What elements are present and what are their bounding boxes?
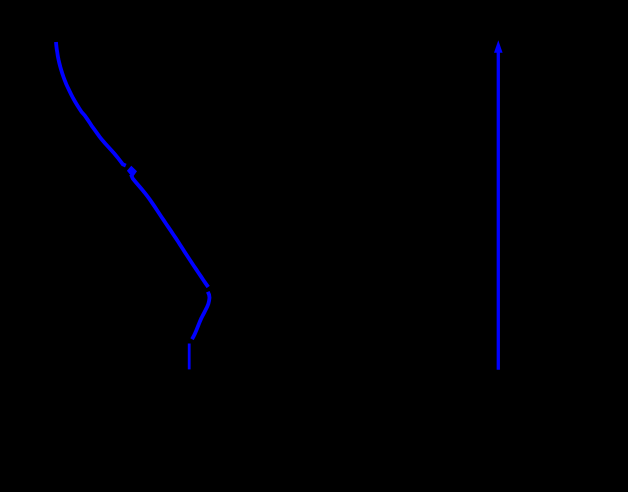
left streamline upper segment (56, 42, 208, 287)
right vertical streamline (497, 51, 500, 370)
left streamline bottom dash (188, 344, 191, 370)
right streamline arrowhead (494, 40, 503, 53)
left streamline lower curved segment (192, 292, 210, 340)
left streamline direction arrow (127, 166, 137, 178)
